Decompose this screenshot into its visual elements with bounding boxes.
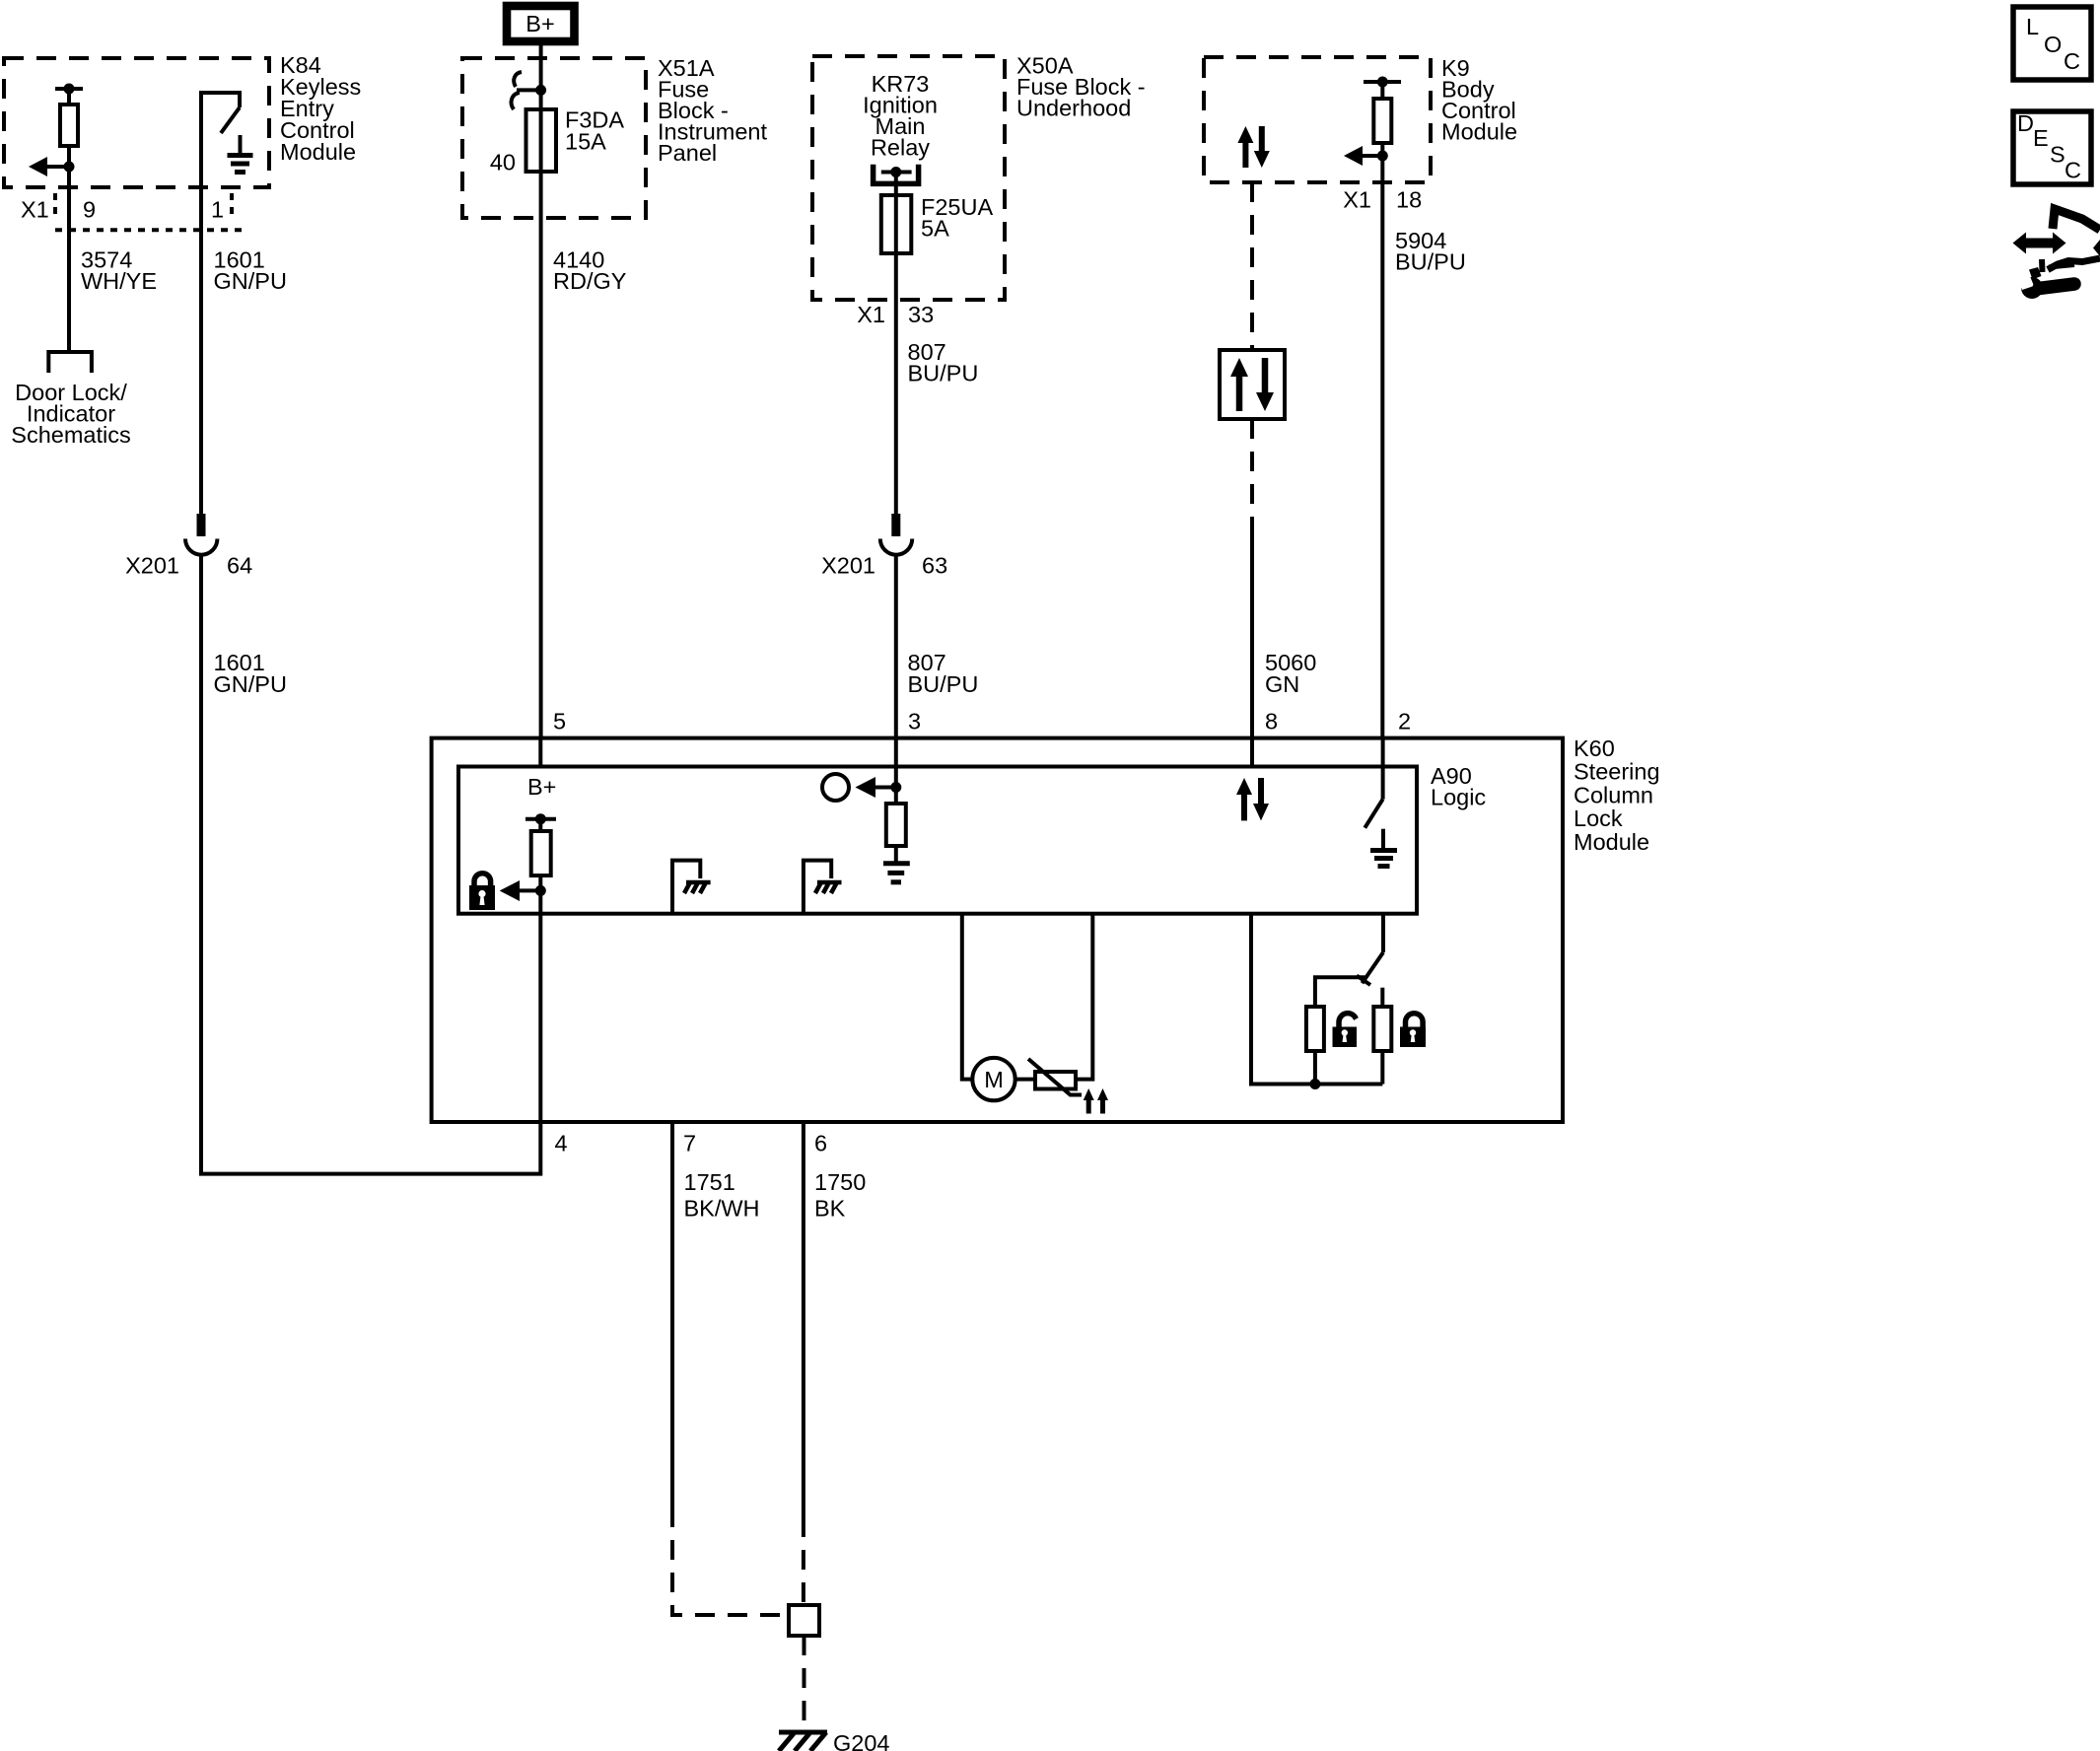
label X51A Fuse Block - Instrument Panel bbox=[658, 55, 767, 166]
arrow to lock icon bbox=[500, 880, 541, 901]
wire resistor to junction bbox=[1380, 143, 1384, 156]
resistor lock (right) bbox=[1373, 1007, 1391, 1051]
svg-text:15A: 15A bbox=[565, 129, 606, 155]
svg-text:RD/GY: RD/GY bbox=[553, 268, 627, 294]
wire resistor bottom to junction bbox=[67, 146, 71, 167]
wire label 1751 BK/WH bbox=[684, 1169, 760, 1222]
wire below left resistor bbox=[1313, 1051, 1317, 1085]
wire lock branch right (from A90 bottom) bbox=[1381, 914, 1385, 952]
circuit breaker hook symbol bbox=[512, 72, 536, 109]
svg-text:9: 9 bbox=[83, 197, 96, 223]
wire label 807 BU/PU (upper) bbox=[908, 339, 979, 386]
circle output symbol bbox=[822, 774, 849, 801]
wire 5904 BU/PU down to K60 pin 2 bbox=[1380, 156, 1384, 739]
svg-text:Relay: Relay bbox=[871, 135, 930, 161]
wire label 807 BU/PU (lower) bbox=[908, 650, 979, 697]
motor M bbox=[972, 1058, 1015, 1100]
label K9 Body Control Module bbox=[1441, 55, 1517, 145]
junction dot at resistor top bbox=[64, 84, 75, 95]
pin labels 4 7 6 below K60 bbox=[555, 1131, 828, 1156]
wire pin 3 into A90 bbox=[894, 738, 898, 788]
wire label 1750 BK bbox=[814, 1169, 866, 1222]
svg-text:Logic: Logic bbox=[1431, 785, 1486, 810]
double up arrows beside thermistor bbox=[1084, 1088, 1108, 1114]
svg-text:63: 63 bbox=[922, 553, 947, 579]
svg-text:L: L bbox=[2026, 14, 2039, 39]
svg-text:7: 7 bbox=[683, 1131, 696, 1156]
wire label 5060 GN bbox=[1265, 650, 1316, 697]
svg-text:Module: Module bbox=[280, 139, 356, 165]
wire pin 1 (1601 GN/PU) down from switch bbox=[199, 118, 203, 517]
switch blade inside A90 bbox=[1365, 800, 1382, 828]
svg-text:3: 3 bbox=[908, 709, 921, 735]
caption Door Lock/Indicator Schematics bbox=[11, 380, 130, 448]
svg-text:B+: B+ bbox=[525, 11, 554, 36]
svg-text:K60: K60 bbox=[1574, 735, 1615, 761]
svg-text:E: E bbox=[2033, 125, 2049, 151]
serial data arrows inside K9 bbox=[1237, 126, 1269, 168]
label F3DA 15A bbox=[565, 107, 624, 155]
icon wiring repair (arrow into connector with wrench) bbox=[2013, 209, 2100, 299]
svg-text:S: S bbox=[2050, 142, 2065, 168]
label KR73 Ignition Main Relay bbox=[863, 71, 938, 161]
pin labels X1 33 bbox=[857, 302, 934, 327]
power symbol B+ bbox=[507, 6, 575, 41]
resistor inside A90 (B+) bbox=[531, 831, 551, 875]
connector X1 of K84 (dotted) bbox=[55, 193, 243, 230]
svg-text:G204: G204 bbox=[833, 1730, 890, 1751]
svg-text:64: 64 bbox=[227, 553, 252, 579]
wire resistor to junction bbox=[538, 875, 542, 890]
resistor inside K84 bbox=[60, 105, 78, 146]
wire right resistor top stub bbox=[1380, 988, 1384, 1007]
svg-text:33: 33 bbox=[908, 302, 934, 327]
module X51A Fuse Block - Instrument Panel (dashed box) bbox=[462, 58, 646, 218]
svg-text:18: 18 bbox=[1396, 187, 1422, 213]
svg-text:X201: X201 bbox=[821, 553, 875, 579]
svg-text:X1: X1 bbox=[21, 197, 49, 223]
labels X201 63 bbox=[821, 553, 947, 579]
svg-text:1750: 1750 bbox=[814, 1169, 866, 1195]
junction dot pin 9 branch bbox=[64, 162, 75, 173]
svg-text:O: O bbox=[2044, 32, 2062, 57]
ground symbol inside A90 (pin 3) bbox=[883, 864, 910, 882]
wire label 1601 GN/PU (lower) bbox=[214, 650, 287, 697]
wire motor to thermistor bbox=[1015, 1078, 1035, 1082]
wire pin 9 (3574 WH/YE) down bbox=[67, 167, 71, 351]
wire pin 5 into A90 bbox=[538, 738, 542, 767]
svg-text:X201: X201 bbox=[125, 553, 179, 579]
svg-text:BK/WH: BK/WH bbox=[684, 1196, 760, 1222]
svg-text:M: M bbox=[984, 1067, 1004, 1092]
node top tick inside K84 bbox=[55, 87, 83, 91]
svg-text:Module: Module bbox=[1441, 119, 1517, 145]
wire pin 6 (1750 BK) down bbox=[802, 1122, 805, 1517]
svg-text:WH/YE: WH/YE bbox=[81, 268, 157, 294]
dashed serial data wire from K9 bbox=[1250, 182, 1254, 350]
serial data box with arrows bbox=[1220, 350, 1285, 419]
module K84 Keyless Entry Control Module (dashed box) bbox=[4, 58, 269, 187]
svg-text:BU/PU: BU/PU bbox=[908, 671, 979, 697]
module X50A Fuse Block - Underhood (dashed box) bbox=[812, 56, 1005, 300]
node tick above resistor K9 bbox=[1364, 80, 1401, 84]
junction dot lock branch bbox=[1309, 1079, 1320, 1089]
resistor unlock (left) bbox=[1306, 1007, 1324, 1051]
dashed wire pin 6 to splice bbox=[802, 1517, 805, 1605]
wire to A90 resistor (pin 3) bbox=[894, 788, 898, 805]
off-page bracket Door Lock bbox=[48, 352, 92, 373]
wire 5060 GN solid to K60 pin 8 bbox=[1250, 529, 1254, 739]
svg-text:D: D bbox=[2017, 110, 2034, 136]
svg-text:X1: X1 bbox=[857, 302, 885, 327]
open padlock icon bbox=[1333, 1014, 1358, 1047]
junction dot above fuse F3DA bbox=[535, 85, 546, 96]
wire 807 BU/PU down to K60 pin 3 bbox=[894, 555, 898, 740]
svg-text:4: 4 bbox=[555, 1131, 568, 1156]
svg-text:BU/PU: BU/PU bbox=[1395, 249, 1466, 275]
wire into fuse bbox=[539, 90, 543, 172]
resistor inside A90 (pin 3) bbox=[886, 804, 906, 846]
wire resistor top stub bbox=[67, 89, 71, 105]
splice box bbox=[789, 1605, 819, 1636]
arrow pointing left inside K9 bbox=[1344, 146, 1382, 166]
module K60 Steering Column Lock Module (outer box) bbox=[432, 738, 1563, 1122]
wire label 1601 GN/PU (upper) bbox=[214, 247, 287, 295]
svg-text:C: C bbox=[2064, 48, 2080, 74]
fuse F3DA 15A bbox=[526, 109, 557, 172]
dashed wire splice to G204 bbox=[803, 1636, 806, 1729]
label K60 Steering Column Lock Module bbox=[1574, 735, 1660, 855]
dashed wire pin 7 to splice bbox=[672, 1507, 787, 1615]
fuse F25UA 5A bbox=[881, 195, 912, 253]
wire motor loop left bbox=[962, 914, 973, 1080]
connector X201 pin 64 (in-line) bbox=[185, 514, 217, 555]
wire pin 7 (1751 BK/WH) down bbox=[670, 1122, 674, 1507]
ground symbol inside K84 bbox=[228, 135, 253, 173]
label F25UA 5A bbox=[921, 194, 993, 242]
svg-text:GN/PU: GN/PU bbox=[214, 268, 287, 294]
junction dot top of K9 resistor bbox=[1377, 77, 1388, 88]
label K84 Keyless Entry Control Module bbox=[280, 52, 361, 165]
wire resistor to ground bbox=[894, 846, 898, 862]
ground G204 symbol bbox=[779, 1732, 827, 1751]
svg-text:GN/PU: GN/PU bbox=[214, 671, 287, 697]
wire below right resistor bbox=[1380, 1051, 1384, 1085]
wire label 4140 RD/GY bbox=[553, 247, 627, 295]
svg-text:1751: 1751 bbox=[684, 1169, 735, 1195]
wire pin 8 into A90 bbox=[1250, 738, 1254, 767]
wire pin 2 into A90 bbox=[1381, 738, 1385, 800]
svg-text:C: C bbox=[2065, 158, 2081, 183]
arrow from pin 3 wire to circle bbox=[856, 777, 896, 798]
svg-text:Schematics: Schematics bbox=[11, 422, 130, 448]
logic block A90 (inner box) bbox=[458, 767, 1417, 914]
svg-text:Underhood: Underhood bbox=[1016, 96, 1131, 121]
wire 4140 RD/GY down to K60 pin 5 bbox=[539, 172, 543, 739]
labels X201 64 bbox=[125, 553, 252, 579]
icon LOC box bbox=[2013, 7, 2091, 80]
wire to resistor bbox=[538, 819, 542, 831]
wire motor loop right bbox=[1076, 914, 1092, 1080]
wire to resistor bbox=[1380, 82, 1384, 99]
module K9 Body Control Module (dashed box) bbox=[1204, 57, 1431, 182]
pin labels X1 9 1 bbox=[21, 197, 224, 223]
wire switch common to resistors bbox=[1315, 977, 1365, 1007]
wire lock branch left (from A90 bottom) bbox=[1251, 914, 1309, 1085]
label A90 Logic bbox=[1431, 763, 1486, 810]
svg-text:BU/PU: BU/PU bbox=[908, 361, 979, 386]
svg-text:BK: BK bbox=[814, 1196, 846, 1222]
svg-text:5: 5 bbox=[553, 709, 566, 735]
svg-text:X1: X1 bbox=[1343, 187, 1371, 213]
connector X201 pin 63 (in-line) bbox=[880, 514, 912, 555]
junction dot K9 output bbox=[1377, 151, 1388, 162]
chassis ground hook (pin 7) inside A90 bbox=[672, 861, 711, 914]
junction dot lock output bbox=[535, 885, 546, 896]
svg-text:Steering: Steering bbox=[1574, 759, 1660, 785]
label X50A Fuse Block - Underhood bbox=[1016, 53, 1146, 121]
serial data arrows inside A90 bbox=[1236, 778, 1269, 820]
closed padlock icon (A90 left) bbox=[469, 874, 495, 910]
chassis ground hook (pin 6) inside A90 bbox=[804, 861, 842, 914]
wire 1601 GN/PU long left run bbox=[201, 555, 540, 1174]
junction dot A90 resistor top bbox=[535, 813, 546, 824]
svg-text:Column: Column bbox=[1574, 782, 1653, 807]
wire bottom rail of lock branch bbox=[1309, 1083, 1382, 1086]
thermistor (PTC) bbox=[1028, 1059, 1082, 1095]
svg-text:6: 6 bbox=[814, 1131, 827, 1156]
wire pin 4 down from junction bbox=[538, 890, 542, 1122]
dashed wire below serial box bbox=[1250, 419, 1254, 529]
closed padlock icon (bottom right) bbox=[1400, 1014, 1426, 1047]
resistor inside K9 bbox=[1373, 99, 1391, 143]
relay KR73 contact bracket bbox=[874, 165, 919, 184]
wire relay to fuse bbox=[894, 173, 898, 254]
svg-text:5A: 5A bbox=[921, 216, 949, 242]
pin labels X1 18 bbox=[1343, 187, 1422, 213]
wire 807 BU/PU down to X201 bbox=[894, 253, 898, 517]
icon DESC box bbox=[2013, 110, 2091, 184]
switch blade (lock position) bbox=[1357, 952, 1383, 985]
ground symbol inside A90 (pin 2) bbox=[1370, 829, 1397, 867]
wire label 5904 BU/PU bbox=[1395, 228, 1466, 275]
node tick above A90 resistor bbox=[525, 817, 556, 821]
wire B+ to fuse block bbox=[539, 45, 543, 90]
svg-text:2: 2 bbox=[1398, 709, 1411, 735]
svg-text:Module: Module bbox=[1574, 829, 1649, 855]
svg-text:B+: B+ bbox=[527, 774, 556, 800]
svg-text:40: 40 bbox=[490, 150, 516, 175]
junction dot pin 3 bbox=[890, 782, 901, 793]
switch to ground inside K84 bbox=[201, 93, 240, 133]
svg-text:1: 1 bbox=[211, 197, 224, 223]
arrow to Door Lock output bbox=[29, 157, 69, 176]
wire label 3574 WH/YE bbox=[81, 247, 157, 295]
svg-text:Lock: Lock bbox=[1574, 805, 1623, 831]
svg-text:Panel: Panel bbox=[658, 140, 717, 166]
svg-text:GN: GN bbox=[1265, 671, 1299, 697]
svg-text:8: 8 bbox=[1265, 709, 1278, 735]
